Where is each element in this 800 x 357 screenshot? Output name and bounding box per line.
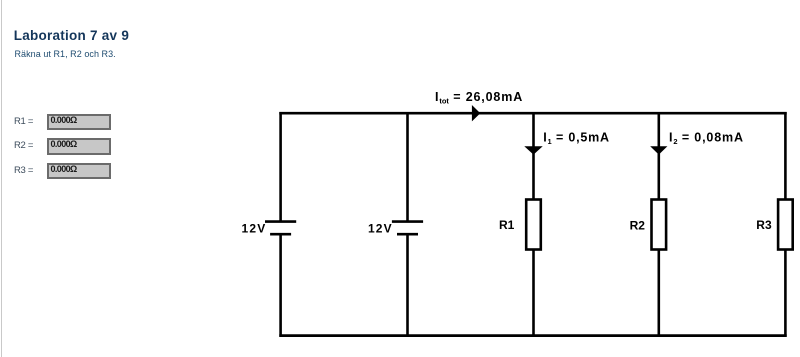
- wire: bottom rail: [279, 334, 786, 337]
- subtitle: [15, 50, 116, 59]
- input field R2: [47, 138, 111, 155]
- wire: left branch lower (battery B1 bottom lead): [279, 234, 282, 337]
- input field R1: [47, 114, 111, 131]
- svg-text:R1: R1: [499, 218, 515, 232]
- resistor R1 body: [526, 200, 541, 250]
- wire: right branch (R3): [784, 112, 787, 337]
- svg-text:12V: 12V: [368, 222, 393, 236]
- svg-text:I1 = 0,5mA: I1 = 0,5mA: [543, 130, 610, 146]
- wire: R2 branch: [657, 112, 660, 337]
- svg-text:R3: R3: [756, 218, 772, 232]
- battery B1 short plate: [270, 233, 291, 236]
- svg-text:12V: 12V: [242, 222, 267, 236]
- current arrow I1 (down into R1 branch): [524, 146, 542, 154]
- input row R3 label: [14, 166, 33, 175]
- svg-text:Itot = 26,08mA: Itot = 26,08mA: [435, 90, 523, 106]
- current arrow I2 (down into R2 branch): [650, 146, 667, 154]
- wire: battery B2 branch upper lead: [406, 112, 409, 222]
- wire: battery B2 branch lower lead: [406, 234, 409, 337]
- title: [14, 29, 129, 43]
- svg-text:I2 = 0,08mA: I2 = 0,08mA: [669, 131, 744, 147]
- left page border: [1, 0, 2, 357]
- wire: top rail: [279, 112, 786, 115]
- input row R2 label: [14, 141, 33, 150]
- svg-text:R2: R2: [630, 219, 646, 233]
- battery B2 short plate: [397, 233, 418, 236]
- resistor R2 body: [652, 200, 667, 250]
- input row R1 label: [14, 117, 33, 126]
- input field R3: [47, 163, 111, 180]
- resistor R3 body: [778, 200, 793, 250]
- battery B2 long plate: [392, 220, 423, 223]
- battery B1 long plate: [265, 220, 296, 223]
- current arrow Itot (rightward on top rail): [472, 105, 480, 121]
- wire: R1 branch: [532, 112, 535, 337]
- wire: left branch upper (battery B1 top lead): [279, 112, 282, 222]
